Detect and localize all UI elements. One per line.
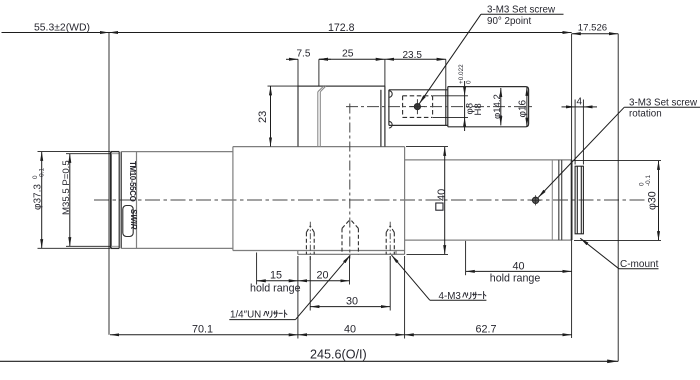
dimension phi8 H8 +0.022/0 bbox=[464, 81, 466, 131]
dimension 15 bbox=[257, 280, 298, 282]
svg-text:62.7: 62.7 bbox=[476, 324, 497, 336]
svg-text:+0.022: +0.022 bbox=[458, 64, 465, 84]
slide plate (phi16 body) bbox=[389, 90, 448, 126]
dimension M35.5 P=0.5 bbox=[69, 154, 71, 247]
front face of lens bbox=[110, 152, 112, 249]
svg-text:245.6(O/I): 245.6(O/I) bbox=[310, 348, 367, 362]
svg-text:-0.1: -0.1 bbox=[645, 175, 652, 186]
M35.5 thread lines bbox=[111, 154, 119, 247]
dimension phi16 bbox=[526, 87, 528, 127]
svg-text:TM10-55CO: TM10-55CO bbox=[128, 161, 137, 202]
dimension 25 bbox=[319, 58, 385, 60]
dimension phi30 0/-0.1 bbox=[658, 161, 660, 241]
svg-text:φ37.3: φ37.3 bbox=[33, 184, 44, 210]
svg-text:25: 25 bbox=[342, 49, 354, 60]
svg-text:1/4″UN: 1/4″UN bbox=[230, 309, 261, 320]
tapped hole M3 left (hidden) bbox=[306, 226, 314, 254]
svg-text:20: 20 bbox=[317, 270, 329, 282]
svg-text:70.1: 70.1 bbox=[192, 324, 213, 336]
dimension phi37.3 bbox=[41, 152, 43, 249]
svg-text:SWIR: SWIR bbox=[129, 209, 138, 230]
svg-text:hold range: hold range bbox=[490, 273, 541, 285]
svg-text:hold range: hold range bbox=[250, 283, 301, 295]
svg-text:40: 40 bbox=[344, 324, 356, 336]
top set screw bbox=[414, 104, 420, 110]
dimension 70.1 bbox=[110, 334, 298, 336]
svg-text:55.3±2(WD): 55.3±2(WD) bbox=[34, 23, 90, 34]
plate end double line bbox=[446, 87, 448, 127]
dimension 245.6 (O/I) bbox=[0, 360, 618, 362]
svg-text:H8: H8 bbox=[473, 103, 484, 115]
dimension square40 vertical bbox=[444, 147, 446, 255]
raised block inner seam double line with chamfer bbox=[318, 86, 326, 147]
rotation set screw bbox=[532, 197, 538, 203]
svg-text:30: 30 bbox=[346, 296, 358, 308]
rear retaining ring double line bbox=[559, 160, 562, 240]
extension line C-mount face upper bbox=[571, 34, 573, 160]
extension line front face bbox=[108, 33, 110, 335]
dimension 23 vertical bbox=[270, 86, 272, 146]
dimension 4 bbox=[562, 106, 598, 108]
svg-text:90° 2point: 90° 2point bbox=[487, 16, 532, 27]
mid barrel bbox=[137, 152, 233, 249]
dimension 172.8 bbox=[109, 32, 572, 34]
extension line C-mount face lower bbox=[571, 240, 573, 338]
svg-text:0: 0 bbox=[466, 80, 473, 84]
svg-text:4: 4 bbox=[577, 97, 583, 108]
main optical axis centerline bbox=[94, 199, 645, 201]
svg-text:172.8: 172.8 bbox=[328, 22, 355, 34]
svg-text:15: 15 bbox=[270, 270, 282, 282]
svg-text:40: 40 bbox=[436, 189, 448, 201]
svg-text:φ16: φ16 bbox=[517, 99, 528, 117]
svg-text:-0.1: -0.1 bbox=[39, 168, 46, 179]
tapped hole M3 right (hidden) bbox=[386, 226, 394, 254]
boss horizontal centerline bbox=[346, 106, 534, 108]
svg-text:17.526: 17.526 bbox=[578, 23, 607, 34]
marking ring outline bbox=[121, 152, 136, 249]
main square block body bbox=[233, 147, 405, 251]
dimension 30 bbox=[310, 306, 390, 308]
front barrel ring (filter thread section) bbox=[111, 152, 120, 249]
plate fixing screw head upper bbox=[389, 91, 392, 98]
svg-text:M35.5 P=0.5: M35.5 P=0.5 bbox=[61, 160, 72, 215]
tapped hole 1/4-20UN center (hidden) bbox=[342, 219, 358, 254]
raised top block bbox=[298, 86, 385, 147]
rear tube bbox=[405, 160, 572, 240]
plate fixing screw head lower bbox=[389, 121, 392, 128]
vertical centerline from boss to 1/4 hole bbox=[349, 104, 351, 259]
C-mount flange face bbox=[571, 160, 573, 240]
C-mount thread ring bbox=[575, 166, 583, 234]
hidden phi8 bore (dashed) bbox=[403, 96, 433, 118]
dimension 17.526 bbox=[572, 33, 619, 35]
dimension phi14.2 bbox=[500, 88, 502, 125]
svg-text:rotation: rotation bbox=[629, 109, 662, 120]
phi14.2 collar cylinder bbox=[448, 87, 529, 127]
front flange double ring bbox=[119, 152, 121, 249]
svg-text:φ14.2: φ14.2 bbox=[492, 94, 503, 119]
svg-text:7.5: 7.5 bbox=[297, 49, 311, 60]
bottom base plate of block bbox=[298, 251, 405, 255]
dimension 55.3±2(WD) bbox=[2, 32, 110, 34]
raised block right wall double line bbox=[381, 86, 385, 147]
dimension 40 hold range right bbox=[466, 270, 572, 272]
svg-text:φ30: φ30 bbox=[647, 191, 659, 210]
extension line image plane bbox=[617, 34, 619, 362]
dimension 40 bottom bbox=[298, 334, 405, 336]
svg-text:23: 23 bbox=[257, 111, 269, 123]
dimension 7.5 bbox=[286, 58, 331, 60]
SWIR badge bbox=[123, 206, 133, 237]
rear tube seam bbox=[551, 160, 553, 240]
dimension 23.5 bbox=[385, 58, 446, 60]
dimension 20 bbox=[298, 280, 350, 282]
svg-text:23.5: 23.5 bbox=[403, 50, 423, 61]
extension lines top dims bbox=[298, 59, 446, 90]
svg-text:40: 40 bbox=[513, 261, 525, 273]
dimension 62.7 bbox=[405, 334, 572, 336]
